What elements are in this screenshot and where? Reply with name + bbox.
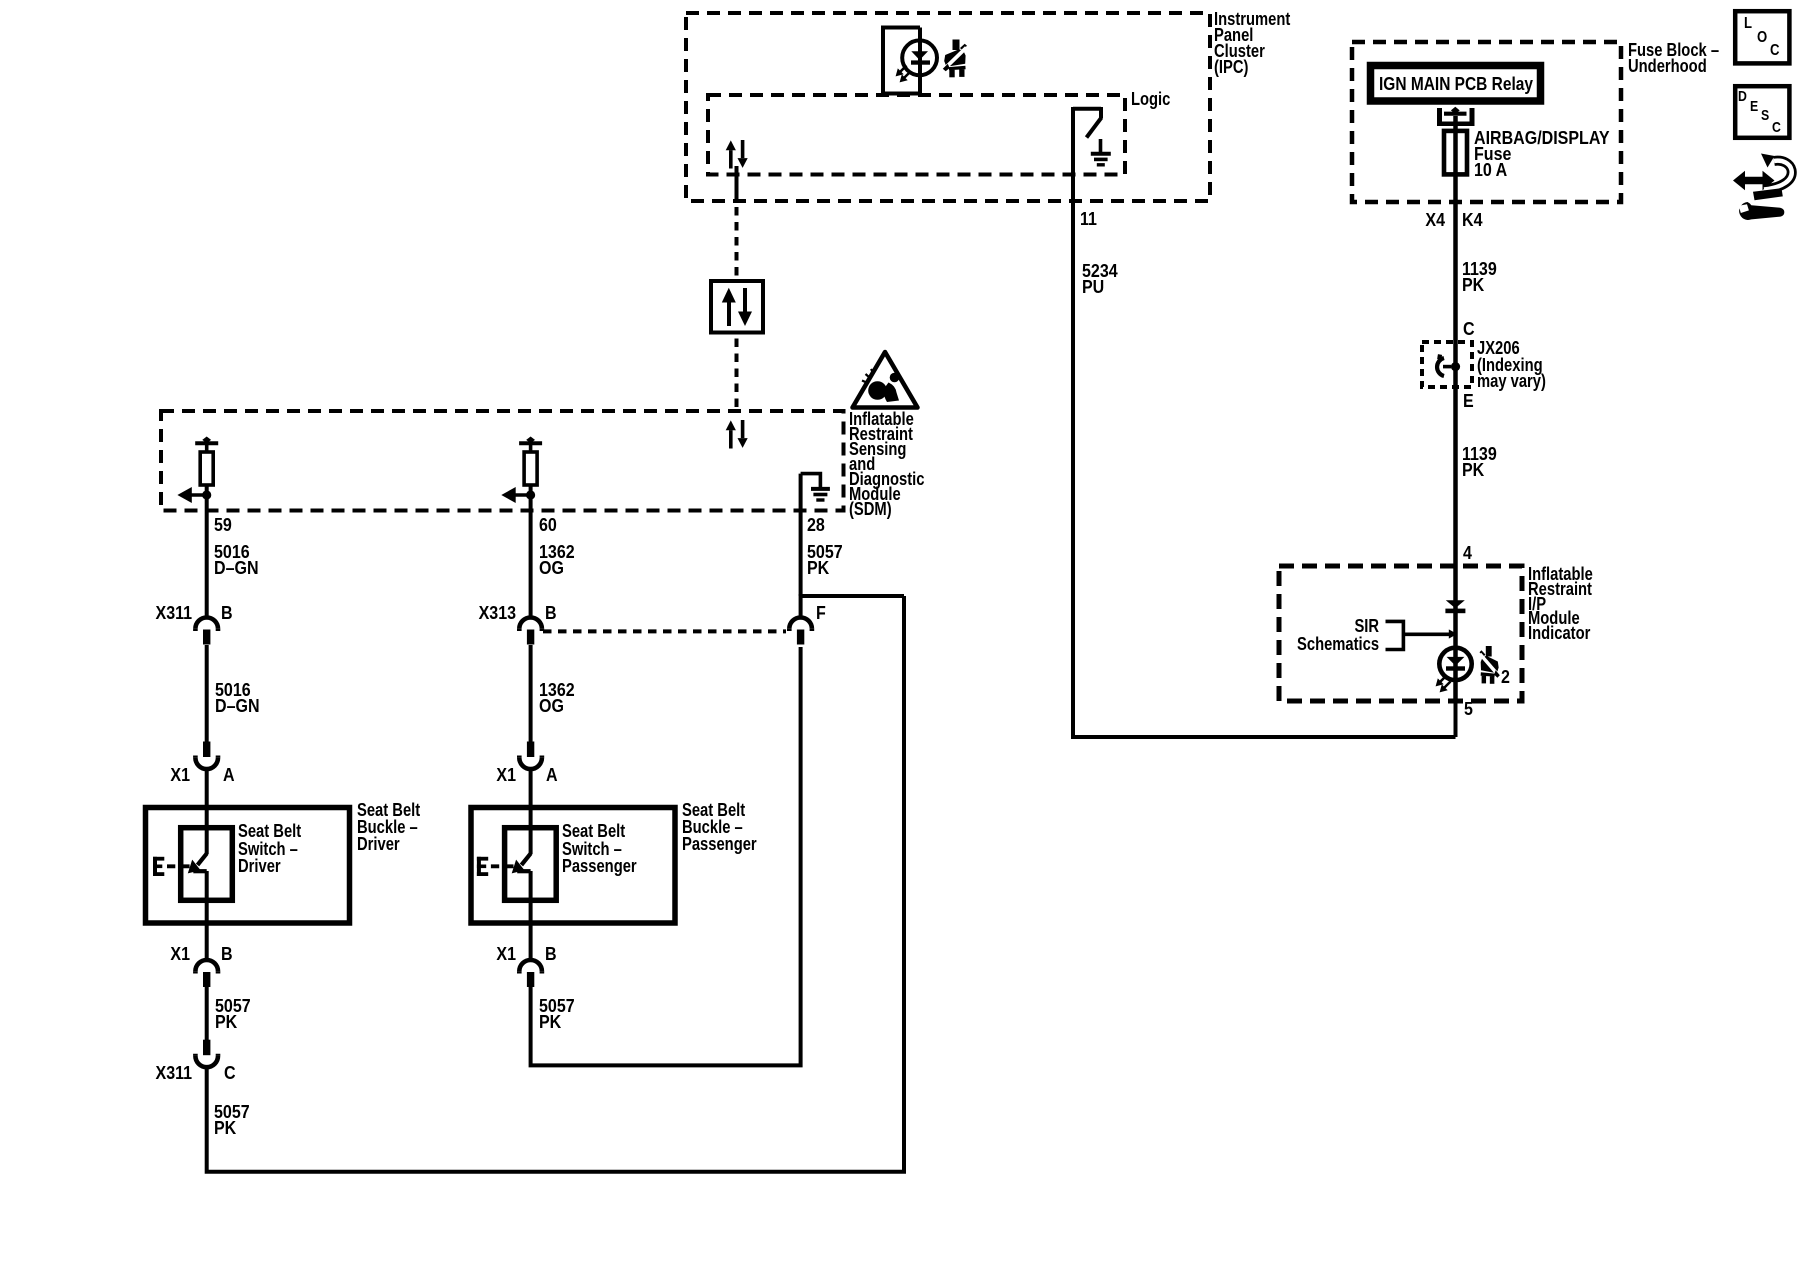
tap arrowhead onto wire <box>1449 629 1457 638</box>
LOC hotspot letters <box>1744 16 1752 32</box>
wire: SDM pin 28 down to junction (circuit 5057 PK) <box>799 474 803 596</box>
pin X4 <box>1426 212 1446 228</box>
wire label 1362 OG (lower) <box>539 682 575 714</box>
label: Instrument Panel Cluster (IPC) <box>1214 11 1290 75</box>
connector X1 name (A row driver) <box>170 767 190 783</box>
dashed box: Inflatable Restraint I/P Module Indicator <box>1279 566 1522 701</box>
label: Seat Belt Switch - Driver <box>238 823 301 876</box>
DESC hotspot box <box>1735 86 1789 138</box>
label: Fuse Block - Underhood <box>1628 42 1719 74</box>
SDM internal ground for pin 28 <box>801 474 830 500</box>
pin A driver <box>223 767 235 783</box>
wire: passenger switch out to X1-B (circuit 5057 PK) <box>529 871 533 961</box>
connector X1 name (B row passenger) <box>496 946 516 962</box>
connector X313 pin B <box>519 618 542 645</box>
label: Logic <box>1131 91 1170 107</box>
dashed box: Logic (inner IPC) <box>708 95 1125 175</box>
label: JX206 (Indexing may vary) <box>1477 340 1546 390</box>
fuse AIRBAG/DISPLAY Fuse 10 A <box>1444 131 1467 175</box>
connector X311 name (B row) <box>155 605 192 621</box>
label: Inflatable Restraint Sensing and Diagnostic Module (SDM) <box>849 412 924 517</box>
SDM warning triangle icon <box>853 352 918 408</box>
pin B driver <box>221 605 233 621</box>
pin 11 <box>1080 211 1097 227</box>
Seat Belt Buckle - Passenger box <box>471 808 675 924</box>
SDM pull-up resistor for pin 59 <box>177 437 218 504</box>
wire label 5234 PU <box>1082 263 1118 295</box>
passenger switch blade and arrow <box>521 853 530 865</box>
connector JX206 symbol <box>1437 355 1460 377</box>
connector X1 pin A driver <box>195 742 218 770</box>
wire: X1-B passenger down, right, up to connector F <box>531 647 801 1065</box>
IPC LED lamp wire <box>918 28 922 94</box>
connector X311 name (C row) <box>155 1065 192 1081</box>
wire: X311-B to X1-A driver <box>205 645 209 742</box>
pin A passenger <box>546 767 558 783</box>
pin 4 <box>1463 545 1472 561</box>
pin F <box>816 605 826 621</box>
wire label 5057 PK (SDM) <box>807 544 843 576</box>
wire label 1139 PK (upper) <box>1462 261 1497 293</box>
IPC LED diode bar <box>911 60 930 64</box>
IPC LED light arrows <box>900 66 911 79</box>
connector X1 pin A passenger <box>519 742 542 770</box>
label: SIR Schematics <box>1297 618 1379 653</box>
driver switch: E terminal and dashed actuator <box>153 857 164 876</box>
wire: SDM pin 60 branch down to passenger buckle (circuit 1362 OG) <box>529 485 533 618</box>
connector X313 pin F <box>789 618 812 645</box>
indicator LED diode triangle <box>1447 657 1465 666</box>
Seat Belt Buckle - Driver box <box>146 808 350 924</box>
driver switch blade and arrow <box>198 853 207 865</box>
IPC seat belt pictograph <box>941 40 968 78</box>
DESC hotspot letters <box>1738 89 1747 105</box>
pin 28 <box>807 517 825 533</box>
belt icon count 2 <box>1501 669 1510 685</box>
SIR Schematics bracket and tap <box>1386 621 1450 649</box>
navigate / adjust icon (double arrow, outline arrow, wrench) <box>1733 154 1792 220</box>
connector X311 pin C <box>195 1040 218 1068</box>
wire: connector F up to junction with pin 28 net <box>801 596 904 618</box>
label: AIRBAG/DISPLAY Fuse 10 A <box>1474 130 1610 178</box>
wire label 5057 PK (driver lower) <box>214 1104 250 1136</box>
pin B passenger <box>545 605 557 621</box>
wire: IPC pin 11 to bottom corner (circuit 5234 PU) <box>1073 107 1456 737</box>
dashed data link wire IPC to connector box <box>735 207 739 279</box>
LOC hotspot box <box>1735 11 1789 63</box>
connector X311 pin B <box>195 618 218 645</box>
connector X1 pin B driver <box>195 960 218 987</box>
data link arrows inside SDM box <box>726 420 748 449</box>
indicator LED lamp circle <box>1439 648 1471 680</box>
dashed box: Inflatable Restraint Sensing and Diagnostic Module (SDM) <box>161 411 844 511</box>
indicator series diode <box>1445 600 1465 613</box>
label: IGN MAIN PCB Relay <box>1379 76 1533 92</box>
IPC indicator LED box outline <box>883 28 920 94</box>
indicator LED diode bar <box>1446 666 1465 670</box>
pin C lower <box>224 1065 236 1081</box>
pin 60 <box>539 517 557 533</box>
label: Seat Belt Buckle - Passenger <box>682 802 757 853</box>
wire: X311-C down, bottom run, up right side to junction (circuit 5057 PK) <box>207 596 904 1172</box>
wire: driver switch out to X1-B (circuit 5057 PK) <box>205 871 209 961</box>
pin B driver lower <box>221 946 233 962</box>
IPC LED diode triangle <box>911 51 928 60</box>
wire: X1-A into driver switch <box>205 770 209 854</box>
pin 59 <box>214 517 232 533</box>
connector X1 name (A row passenger) <box>496 767 516 783</box>
dashed box: connector JX206 <box>1422 342 1472 387</box>
passenger switch: E terminal and dashed actuator <box>477 857 488 876</box>
wire label 5016 D-GN (lower) <box>215 682 260 714</box>
indicator LED light arrows <box>1440 676 1451 689</box>
relay terminal diamond <box>1451 107 1460 114</box>
IPC LED lamp circle <box>902 40 937 75</box>
dashed data link wire connector box to SDM <box>735 339 739 410</box>
IPC Logic switch to ground <box>1073 107 1102 138</box>
connector X1 name (B row driver) <box>170 946 190 962</box>
junction dot and arrow to other circuitry <box>202 490 211 499</box>
dashed box: Fuse Block - Underhood <box>1352 42 1621 202</box>
connector X313 name <box>479 605 516 621</box>
wire label 1362 OG (upper) <box>539 544 575 576</box>
relay IGN MAIN PCB Relay bold box <box>1371 66 1541 102</box>
GRAPHICS <box>161 13 1621 701</box>
connector X1 pin B passenger <box>519 960 542 987</box>
wire: X1-A into passenger switch <box>529 770 533 854</box>
Seat Belt Switch - Passenger inner box <box>505 828 557 901</box>
pin E <box>1463 393 1474 409</box>
pin C <box>1463 321 1475 337</box>
wire: main right vertical (fuse X4/K4 down through JX206 to indicator pin 4) <box>1453 116 1458 701</box>
pin B passenger lower <box>545 946 557 962</box>
wire: indicator pin 5 down to corner <box>1454 701 1458 737</box>
wire label 5057 PK (passenger) <box>539 998 575 1030</box>
wire label 1139 PK (lower) <box>1462 446 1497 478</box>
SDM pull-up resistor for pin 60 <box>501 437 542 504</box>
pin K4 <box>1462 212 1482 228</box>
wire label 5016 D-GN (upper) <box>214 544 259 576</box>
IPC logic ground symbol <box>1091 139 1111 165</box>
wire: X1-B driver to X311-C <box>205 987 209 1040</box>
wire: SDM pin 59 branch down to driver buckle (circuit 5016 D-GN) <box>205 485 209 618</box>
indicator seat belt pictograph (mirrored) <box>1479 646 1501 684</box>
relay output terminal symbol <box>1437 108 1475 124</box>
wire label 5057 PK (driver mid) <box>215 998 251 1030</box>
wire: X313-B to X1-A passenger <box>529 645 533 742</box>
Seat Belt Switch - Driver inner box <box>181 828 233 901</box>
dashed box: Instrument Panel Cluster (IPC) <box>686 13 1210 201</box>
data link connector box with arrows <box>711 281 763 333</box>
label: Seat Belt Buckle - Driver <box>357 802 420 853</box>
pin 5 <box>1464 701 1473 717</box>
label: Seat Belt Switch - Passenger <box>562 823 637 876</box>
data link arrows inside Logic box <box>726 140 748 169</box>
wire stub below logic arrows through IPC edge <box>735 166 739 203</box>
dashed connector line X313 B to F <box>543 629 786 633</box>
label: Inflatable Restraint I/P Module Indicator <box>1528 567 1593 641</box>
